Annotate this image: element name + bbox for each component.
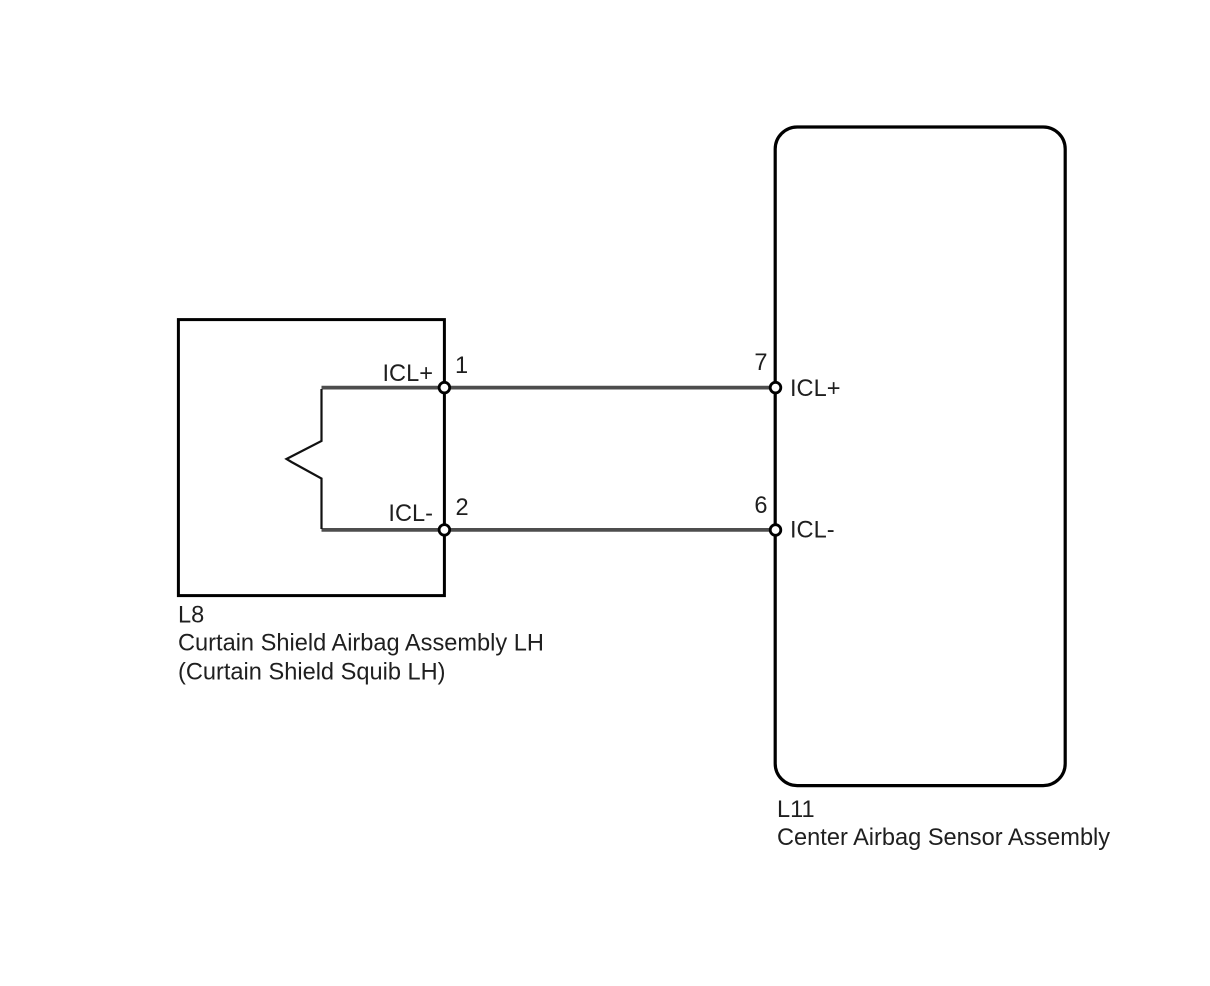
svg-text:ICL-: ICL- — [388, 501, 433, 527]
svg-text:ICL+: ICL+ — [790, 376, 841, 402]
svg-text:Curtain Shield Airbag Assembly: Curtain Shield Airbag Assembly LH — [178, 631, 544, 657]
svg-text:(Curtain Shield Squib LH): (Curtain Shield Squib LH) — [178, 660, 446, 686]
svg-text:2: 2 — [456, 495, 469, 521]
svg-text:6: 6 — [754, 493, 767, 519]
svg-text:1: 1 — [455, 353, 468, 379]
svg-text:Center Airbag Sensor Assembly: Center Airbag Sensor Assembly — [777, 825, 1110, 851]
svg-text:ICL-: ICL- — [790, 518, 835, 544]
svg-text:L8: L8 — [178, 602, 204, 628]
svg-text:ICL+: ICL+ — [383, 361, 434, 387]
svg-text:7: 7 — [754, 350, 767, 376]
svg-text:L11: L11 — [777, 797, 815, 823]
